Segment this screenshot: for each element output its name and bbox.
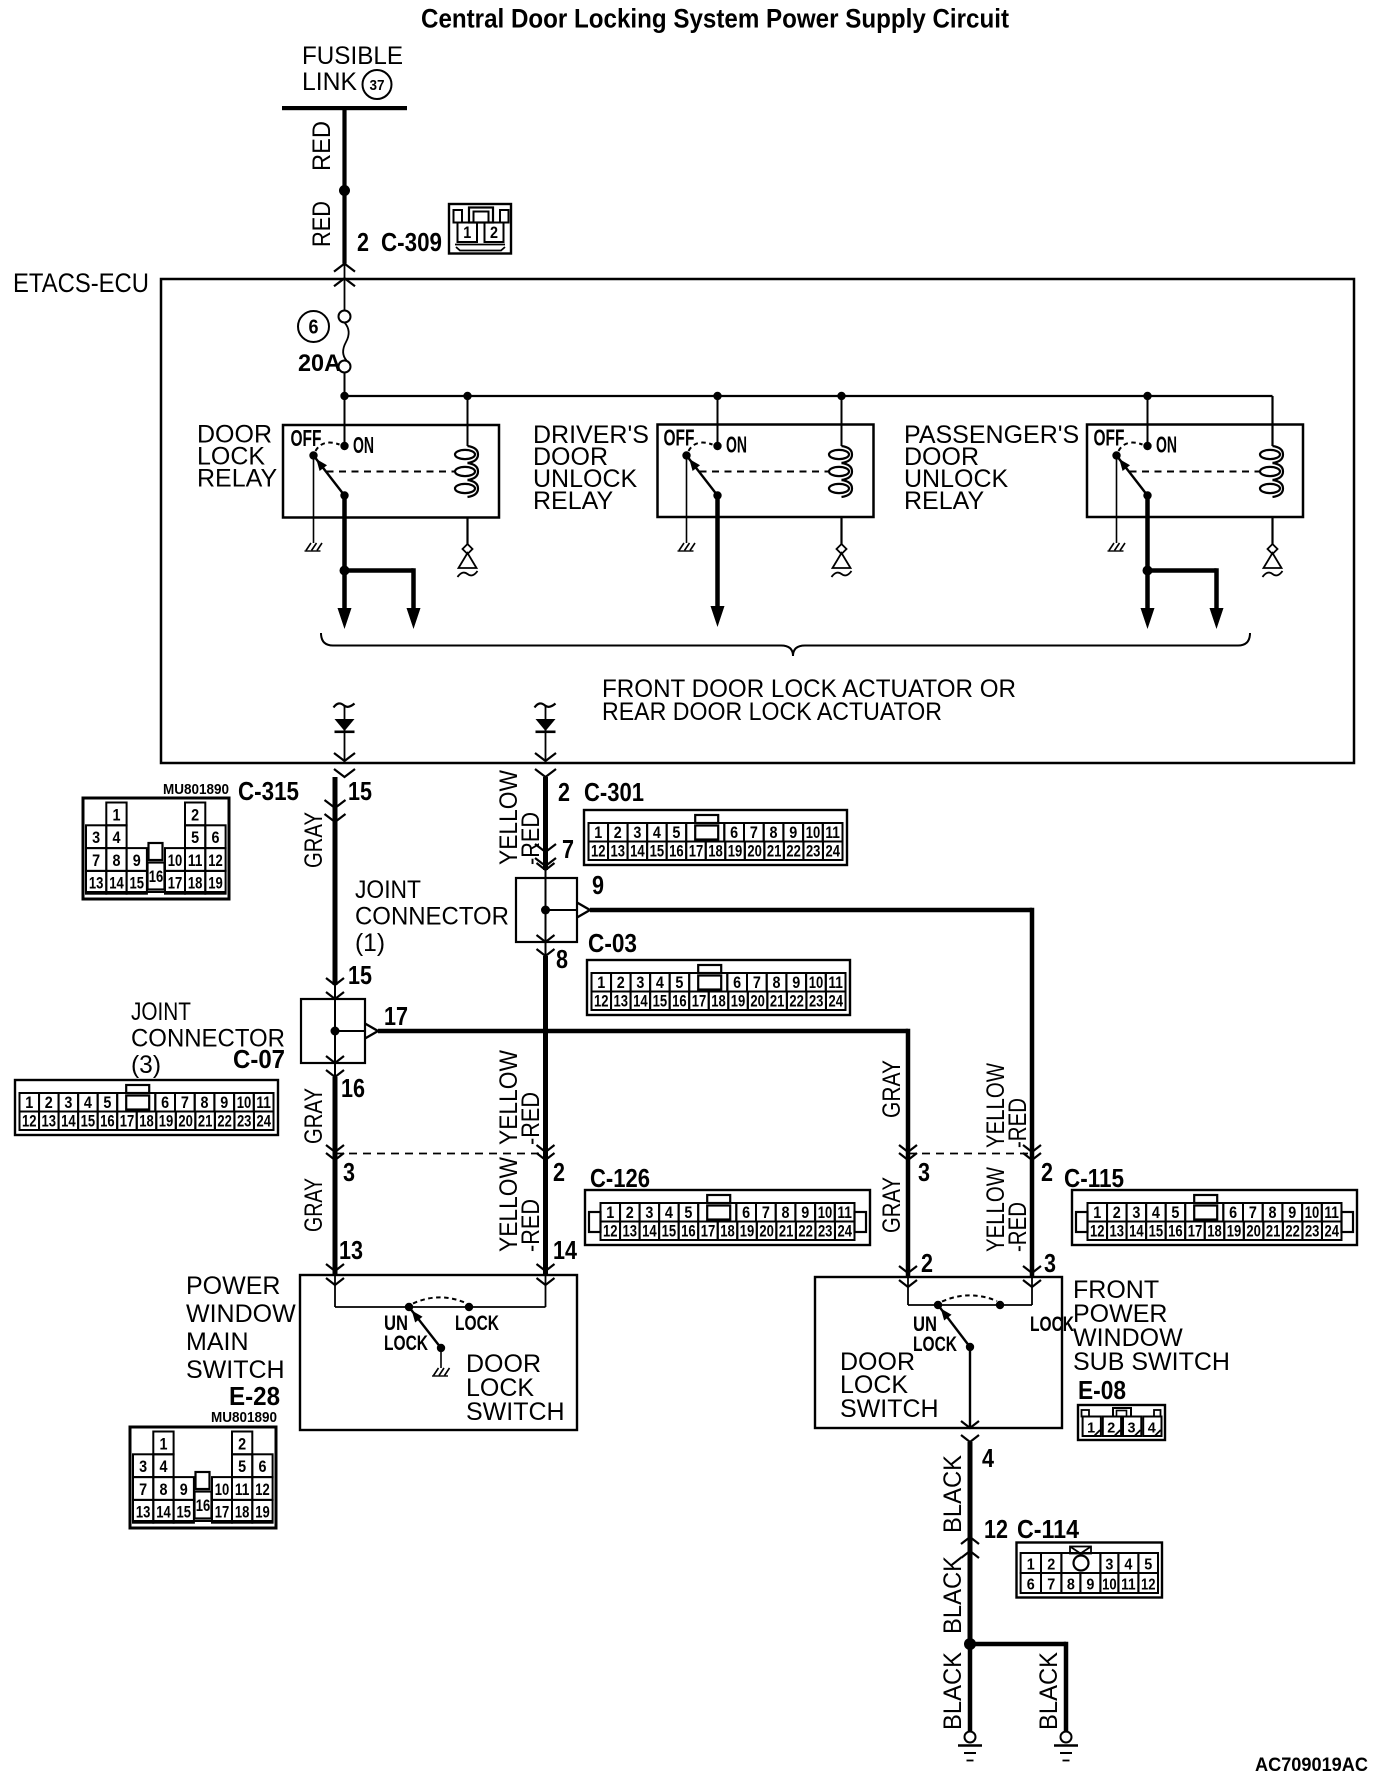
svg-text:4: 4 (656, 974, 665, 992)
relay passenger-unlock ON contact dot (1143, 442, 1151, 450)
relay passenger-unlock wire OFF-pivot to chassis ground (1116, 456, 1118, 544)
svg-text:19: 19 (740, 1223, 755, 1241)
relay driver-unlock coil ground symbol (837, 544, 847, 554)
relay driver-unlock box (658, 425, 874, 518)
wire BLACK upper (968, 1442, 973, 1644)
connector C-309 icon (449, 204, 511, 254)
svg-text:19: 19 (159, 1113, 174, 1131)
svg-text:23: 23 (237, 1113, 252, 1131)
svg-text:18: 18 (708, 843, 723, 861)
connector C-126 24-pin icon (585, 1190, 870, 1245)
svg-text:OFF: OFF (291, 425, 322, 451)
svg-text:BLACK: BLACK (939, 1652, 967, 1730)
svg-text:5: 5 (675, 974, 683, 992)
svg-text:13: 13 (1110, 1223, 1125, 1241)
svg-text:7: 7 (762, 1204, 770, 1222)
main switch UNLOCK contact dot (405, 1303, 413, 1311)
svg-text:LOCK: LOCK (384, 1332, 428, 1355)
svg-text:19: 19 (728, 843, 743, 861)
relay driver-unlock arm arrowhead (689, 459, 700, 471)
fuse 6 circle label (298, 311, 329, 342)
svg-text:16: 16 (681, 1223, 696, 1241)
joint connector (3) chevrons below (326, 1056, 344, 1063)
wire GRAY left vertical lower (333, 1077, 338, 1275)
svg-text:11: 11 (1121, 1577, 1136, 1594)
relay driver-unlock switch arm (687, 456, 718, 496)
svg-text:20: 20 (759, 1223, 774, 1241)
svg-text:17: 17 (701, 1223, 716, 1241)
svg-text:23: 23 (809, 993, 824, 1011)
relay passenger-unlock coil wire to ground (1271, 517, 1273, 544)
svg-text:14: 14 (109, 875, 124, 893)
svg-text:15: 15 (348, 960, 372, 990)
relay passenger-unlock coil (1273, 446, 1284, 463)
svg-text:1: 1 (606, 1204, 614, 1222)
svg-text:C-07: C-07 (233, 1044, 285, 1074)
main switch chassis ground (434, 1368, 439, 1376)
svg-text:1: 1 (1093, 1204, 1101, 1222)
relay passenger-unlock wire from bus to coil (1272, 396, 1274, 446)
svg-text:C-03: C-03 (588, 928, 637, 958)
relay door-lock box (283, 425, 499, 518)
svg-text:17: 17 (215, 1504, 230, 1522)
joint connector (3) box (301, 999, 365, 1063)
svg-text:(3): (3) (131, 1051, 161, 1079)
front power window sub switch box (815, 1277, 1062, 1428)
svg-text:-RED: -RED (517, 1199, 545, 1252)
svg-text:12: 12 (603, 1223, 618, 1241)
joint connector (3) wire through (334, 999, 336, 1063)
svg-text:11: 11 (256, 1094, 271, 1112)
power bus line (345, 395, 1273, 397)
svg-text:GRAY: GRAY (878, 1060, 906, 1118)
svg-text:POWER: POWER (186, 1272, 280, 1300)
svg-text:4: 4 (665, 1204, 674, 1222)
svg-text:18: 18 (139, 1113, 154, 1131)
svg-text:4: 4 (84, 1094, 93, 1112)
svg-text:14: 14 (61, 1113, 76, 1131)
svg-text:8: 8 (1269, 1204, 1277, 1222)
svg-text:9: 9 (801, 1204, 809, 1222)
svg-text:18: 18 (188, 875, 203, 893)
relay passenger-unlock output junction dot (1143, 566, 1153, 576)
svg-text:24: 24 (1324, 1223, 1339, 1241)
svg-text:BLACK: BLACK (939, 1455, 967, 1533)
svg-text:9: 9 (1086, 1577, 1094, 1594)
main switch internal wires (334, 1275, 336, 1307)
svg-text:14: 14 (633, 993, 648, 1011)
svg-text:3: 3 (1044, 1248, 1056, 1278)
ground symbol left (965, 1732, 976, 1743)
chevron crossings into main switch (326, 1264, 344, 1271)
svg-text:21: 21 (770, 993, 785, 1011)
svg-text:22: 22 (217, 1113, 232, 1131)
joint connector (1) arrow (546, 909, 579, 911)
svg-text:12: 12 (591, 843, 606, 861)
chevron crossing at ETACS bottom gray-output (334, 753, 355, 761)
chevron crossings into sub switch (899, 1266, 917, 1273)
svg-text:2: 2 (357, 227, 369, 257)
wire BLACK branch to right ground (970, 1642, 1066, 1647)
wire YELLOW-RED left vertical mid (543, 956, 548, 1275)
svg-text:6: 6 (161, 1094, 169, 1112)
main switch LOCK contact dot (465, 1303, 473, 1311)
relay driver-unlock chassis ground (679, 543, 684, 551)
svg-text:17: 17 (168, 875, 183, 893)
svg-text:16: 16 (196, 1497, 211, 1515)
svg-text:2: 2 (490, 224, 498, 242)
svg-text:5: 5 (684, 1204, 692, 1222)
svg-text:13: 13 (89, 875, 104, 893)
fusible link number circle 37 (363, 70, 392, 99)
svg-text:24: 24 (825, 843, 840, 861)
svg-text:(1): (1) (355, 929, 385, 957)
main switch arm (409, 1307, 441, 1348)
svg-text:MAIN: MAIN (186, 1328, 249, 1356)
relay driver-unlock wire from bus to coil (841, 396, 843, 446)
svg-text:2: 2 (238, 1435, 246, 1453)
svg-text:-RED: -RED (517, 1092, 545, 1145)
C-115 connector dashed mating line (908, 1153, 1032, 1155)
svg-text:22: 22 (1285, 1223, 1300, 1241)
svg-text:JOINT: JOINT (355, 876, 421, 904)
relay door-lock arm arrowhead (316, 459, 327, 471)
svg-text:13: 13 (136, 1504, 151, 1522)
svg-text:12: 12 (208, 852, 223, 870)
svg-text:10: 10 (215, 1481, 230, 1499)
svg-text:24: 24 (828, 993, 843, 1011)
svg-text:2: 2 (1107, 1420, 1115, 1437)
joint connector (1) chevrons below (537, 935, 555, 942)
relay passenger-unlock dashed link arm-to-coil (1130, 471, 1260, 473)
svg-text:15: 15 (130, 875, 145, 893)
svg-text:8: 8 (1067, 1577, 1075, 1594)
fuse element (339, 311, 351, 323)
svg-text:-RED: -RED (1004, 1202, 1032, 1252)
svg-text:C-114: C-114 (1017, 1514, 1079, 1544)
svg-text:JOINT: JOINT (131, 998, 191, 1026)
svg-text:4: 4 (1148, 1420, 1157, 1437)
svg-text:9: 9 (220, 1094, 228, 1112)
wire GRAY left vertical upper (333, 777, 338, 985)
svg-text:11: 11 (828, 974, 843, 992)
svg-text:4: 4 (159, 1458, 168, 1476)
svg-text:23: 23 (1305, 1223, 1320, 1241)
svg-text:SWITCH: SWITCH (466, 1398, 565, 1426)
wire into ETACS-ECU (344, 264, 346, 311)
svg-text:3: 3 (1128, 1420, 1136, 1437)
svg-text:RELAY: RELAY (197, 465, 277, 493)
svg-text:MU801890: MU801890 (211, 1410, 277, 1426)
svg-text:13: 13 (42, 1113, 57, 1131)
relay door-lock switch arm (314, 456, 345, 496)
svg-text:3: 3 (1132, 1204, 1140, 1222)
svg-text:CONNECTOR: CONNECTOR (355, 903, 509, 931)
svg-text:23: 23 (818, 1223, 833, 1241)
svg-text:4: 4 (1152, 1204, 1161, 1222)
svg-text:E-28: E-28 (229, 1381, 280, 1411)
svg-text:2: 2 (617, 974, 625, 992)
svg-text:GRAY: GRAY (300, 812, 328, 868)
svg-text:20: 20 (1246, 1223, 1261, 1241)
svg-text:SWITCH: SWITCH (186, 1356, 285, 1384)
sub switch output wire inside box (969, 1347, 971, 1428)
svg-text:WINDOW: WINDOW (186, 1300, 296, 1328)
svg-text:6: 6 (258, 1458, 266, 1476)
svg-text:11: 11 (837, 1204, 852, 1222)
svg-text:3: 3 (139, 1458, 147, 1476)
relay passenger-unlock output arrow 1 (1141, 608, 1155, 629)
svg-text:5: 5 (1144, 1557, 1152, 1574)
svg-text:18: 18 (235, 1504, 250, 1522)
svg-text:22: 22 (789, 993, 804, 1011)
svg-text:11: 11 (188, 852, 203, 870)
svg-text:9: 9 (1288, 1204, 1296, 1222)
sub switch arm end dot (966, 1343, 974, 1351)
wire YELLOW-RED left vertical upper (543, 777, 548, 870)
svg-text:20: 20 (747, 843, 762, 861)
svg-text:15: 15 (650, 843, 665, 861)
svg-text:REAR DOOR LOCK ACTUATOR: REAR DOOR LOCK ACTUATOR (602, 698, 942, 726)
svg-text:16: 16 (341, 1073, 365, 1103)
relay door-lock output branch wire (345, 568, 414, 573)
relay driver-unlock ON contact dot (713, 442, 721, 450)
svg-text:ON: ON (726, 432, 747, 458)
svg-text:3: 3 (645, 1204, 653, 1222)
svg-text:12: 12 (255, 1481, 270, 1499)
svg-text:7: 7 (139, 1481, 147, 1499)
sub switch UNLOCK contact dot (934, 1301, 942, 1309)
chevron crossing at dashed mating line x=545.5 (537, 1145, 555, 1152)
svg-text:12: 12 (984, 1514, 1008, 1544)
relay door-lock dashed link arm-to-coil (327, 471, 455, 473)
svg-text:GRAY: GRAY (878, 1177, 906, 1233)
svg-text:1: 1 (112, 806, 120, 824)
svg-text:8: 8 (773, 974, 781, 992)
svg-text:LINK: LINK (302, 68, 357, 96)
svg-text:14: 14 (630, 843, 645, 861)
main switch wire to chassis ground (440, 1348, 442, 1368)
svg-text:5: 5 (191, 829, 199, 847)
relay passenger-unlock output arrow 2 (1210, 608, 1224, 629)
svg-text:5: 5 (672, 824, 680, 842)
svg-text:GRAY: GRAY (300, 1178, 328, 1232)
connector C-115 24-pin icon (1072, 1190, 1357, 1245)
svg-text:2: 2 (626, 1204, 634, 1222)
svg-text:1: 1 (159, 1435, 167, 1453)
svg-text:8: 8 (782, 1204, 790, 1222)
svg-text:1: 1 (463, 224, 471, 242)
relay passenger-unlock wire from bus to ON contact (1147, 396, 1149, 446)
svg-text:9: 9 (792, 974, 800, 992)
svg-text:10: 10 (806, 824, 821, 842)
ETACS-ECU box (161, 279, 1354, 763)
svg-text:2: 2 (553, 1157, 565, 1187)
svg-text:ON: ON (1156, 432, 1177, 458)
relay passenger-unlock output branch wire (1148, 568, 1217, 573)
main switch arm end dot (437, 1344, 445, 1352)
joint connector (3) arrow (335, 1030, 366, 1032)
connector C-301 24-pin icon (584, 810, 847, 865)
svg-text:22: 22 (786, 843, 801, 861)
svg-text:10: 10 (818, 1204, 833, 1222)
svg-text:17: 17 (120, 1113, 135, 1131)
svg-text:GRAY: GRAY (300, 1088, 328, 1144)
svg-text:19: 19 (208, 875, 223, 893)
sub switch LOCK contact dot (996, 1301, 1004, 1309)
ground symbol right (1061, 1732, 1072, 1743)
relay passenger-unlock dashed throw arc (1119, 443, 1143, 451)
junction dot on red wire (339, 185, 350, 196)
wire fuse to bus (344, 373, 346, 397)
relay door-lock common contact dot (340, 491, 348, 499)
svg-text:16: 16 (1168, 1223, 1183, 1241)
svg-text:2: 2 (1047, 1557, 1055, 1574)
svg-text:14: 14 (156, 1504, 171, 1522)
svg-text:17: 17 (689, 843, 704, 861)
joint connector (1) chevrons above (537, 863, 555, 870)
main switch dashed arc (413, 1297, 466, 1303)
svg-text:4: 4 (1124, 1557, 1132, 1574)
svg-text:12: 12 (1090, 1223, 1105, 1241)
svg-text:SWITCH: SWITCH (840, 1395, 939, 1423)
svg-text:C-115: C-115 (1064, 1163, 1124, 1193)
wire from joint connector 1 to right yellow-red drop (590, 908, 1032, 913)
svg-text:10: 10 (1102, 1577, 1117, 1594)
svg-text:13: 13 (611, 843, 626, 861)
svg-text:23: 23 (806, 843, 821, 861)
relay door-lock wire from bus to coil (467, 396, 469, 446)
svg-text:16: 16 (100, 1113, 115, 1131)
svg-text:20: 20 (750, 993, 765, 1011)
relay door-lock coil wire to ground (466, 517, 468, 544)
sub switch dashed arc (942, 1295, 997, 1301)
svg-text:OFF: OFF (664, 425, 695, 451)
chevron crossing at C-315 (325, 800, 346, 808)
svg-text:4: 4 (653, 824, 662, 842)
svg-text:C-315: C-315 (238, 776, 299, 806)
svg-text:22: 22 (798, 1223, 813, 1241)
svg-text:1: 1 (1087, 1420, 1095, 1437)
svg-text:8: 8 (201, 1094, 209, 1112)
connector E-28 19-pin icon (130, 1427, 276, 1528)
svg-text:6: 6 (1027, 1577, 1035, 1594)
svg-text:19: 19 (1227, 1223, 1242, 1241)
relay door-lock wire OFF-pivot to chassis ground (313, 456, 315, 544)
svg-text:15: 15 (81, 1113, 96, 1131)
svg-text:2: 2 (191, 806, 199, 824)
svg-text:6: 6 (309, 317, 319, 339)
svg-text:C-309: C-309 (381, 227, 442, 257)
svg-text:21: 21 (198, 1113, 213, 1131)
svg-text:7: 7 (753, 974, 761, 992)
svg-text:6: 6 (211, 829, 219, 847)
svg-text:BLACK: BLACK (939, 1556, 967, 1634)
svg-text:20: 20 (178, 1113, 193, 1131)
relay driver-unlock coil (842, 446, 853, 463)
svg-text:AC709019AC: AC709019AC (1255, 1755, 1368, 1776)
ground junction dot (964, 1638, 976, 1650)
joint connector (3) chevrons above (326, 978, 344, 985)
svg-text:15: 15 (653, 993, 668, 1011)
svg-text:1: 1 (25, 1094, 33, 1112)
svg-text:15: 15 (177, 1504, 192, 1522)
svg-text:4: 4 (982, 1443, 994, 1473)
svg-text:2: 2 (614, 824, 622, 842)
wire from joint connector 3 to right gray drop (378, 1029, 908, 1034)
relay door-lock ON contact dot (340, 442, 348, 450)
svg-text:14: 14 (642, 1223, 657, 1241)
svg-text:1: 1 (594, 824, 602, 842)
wire RED from fusible link (342, 108, 346, 264)
svg-text:MU801890: MU801890 (163, 782, 229, 798)
svg-text:20A: 20A (298, 350, 341, 377)
relay passenger-unlock coil ground symbol (1268, 544, 1278, 554)
relay driver-unlock coil wire to ground (840, 517, 842, 544)
svg-text:9: 9 (133, 852, 141, 870)
svg-text:6: 6 (1229, 1204, 1237, 1222)
svg-text:1: 1 (597, 974, 605, 992)
svg-text:3: 3 (636, 974, 644, 992)
chevron crossing below sub switch (961, 1421, 979, 1428)
joint connector (1) center dot (541, 906, 550, 915)
svg-text:7: 7 (562, 834, 574, 864)
diode symbol gray-output (335, 719, 355, 731)
svg-text:17: 17 (384, 1001, 408, 1031)
svg-text:6: 6 (742, 1204, 750, 1222)
relay passenger-unlock arm arrowhead (1119, 459, 1130, 471)
svg-text:3: 3 (918, 1157, 930, 1187)
relay door-lock coil (468, 446, 479, 463)
svg-text:37: 37 (370, 77, 385, 94)
diode symbol yellow-red-output (536, 719, 556, 731)
svg-text:21: 21 (1266, 1223, 1281, 1241)
svg-text:2: 2 (45, 1094, 53, 1112)
svg-text:11: 11 (235, 1481, 250, 1499)
svg-text:2: 2 (1113, 1204, 1121, 1222)
svg-text:OFF: OFF (1094, 425, 1125, 451)
svg-text:LOCK: LOCK (455, 1312, 499, 1335)
svg-text:2: 2 (921, 1248, 933, 1278)
C-126 connector dashed mating line (335, 1153, 546, 1155)
svg-text:ON: ON (353, 432, 374, 458)
svg-text:8: 8 (112, 852, 120, 870)
svg-text:RELAY: RELAY (533, 487, 613, 515)
svg-text:-RED: -RED (1004, 1098, 1032, 1148)
svg-text:18: 18 (720, 1223, 735, 1241)
relay driver-unlock OFF pivot dot (682, 451, 690, 459)
svg-text:16: 16 (672, 993, 687, 1011)
wire BLACK to left ground (968, 1644, 973, 1731)
chevron crossing at dashed mating line x=908 (899, 1145, 917, 1152)
bus junction dot 3 (713, 392, 721, 400)
relay driver-unlock dashed link arm-to-coil (700, 471, 829, 473)
relay door-lock dashed throw arc (316, 443, 340, 451)
svg-text:7: 7 (92, 852, 100, 870)
chevron crossing at dashed mating line x=1032 (1023, 1145, 1041, 1152)
svg-text:SUB SWITCH: SUB SWITCH (1073, 1348, 1230, 1376)
svg-text:18: 18 (711, 993, 726, 1011)
connector C-03 24-pin icon (587, 960, 850, 1015)
svg-text:14: 14 (553, 1235, 577, 1265)
relay passenger-unlock switch arm (1117, 456, 1148, 496)
svg-text:18: 18 (1207, 1223, 1222, 1241)
svg-text:13: 13 (339, 1235, 363, 1265)
svg-text:Central Door Locking System Po: Central Door Locking System Power Supply… (421, 4, 1009, 34)
svg-text:19: 19 (255, 1504, 270, 1522)
svg-text:16: 16 (669, 843, 684, 861)
svg-text:15: 15 (662, 1223, 677, 1241)
